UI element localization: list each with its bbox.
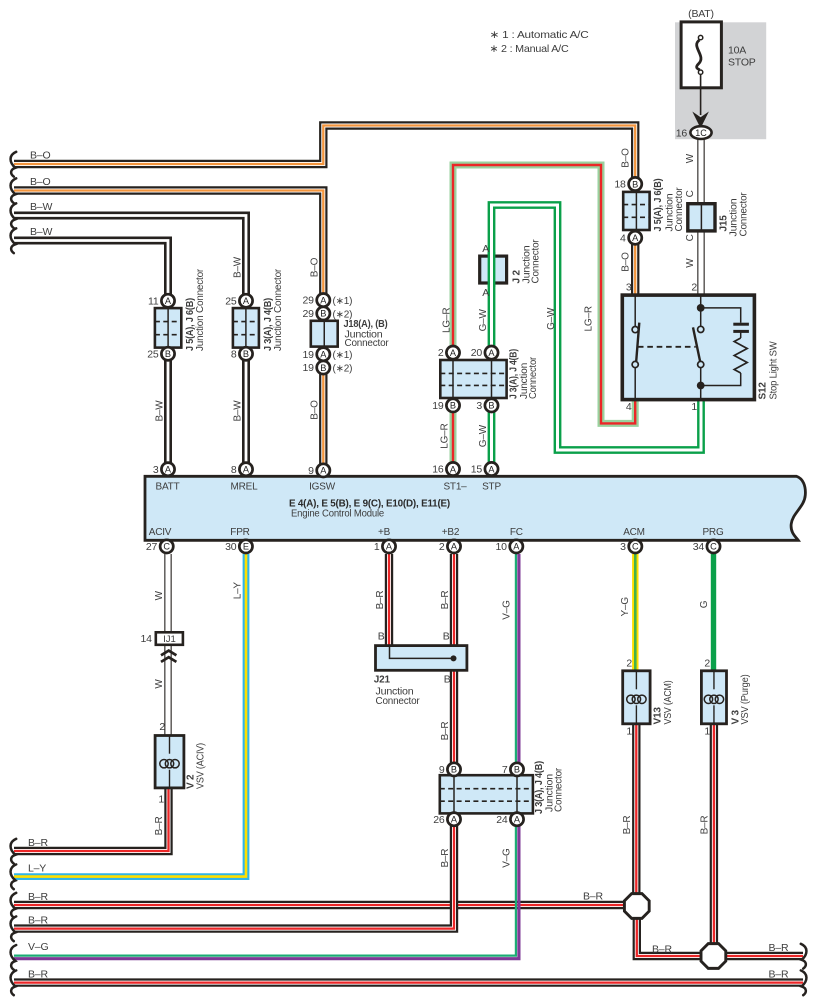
svg-text:E: E: [243, 542, 249, 552]
svg-text:FPR: FPR: [230, 527, 249, 538]
solenoid valve V3 VSV (Purge): [701, 671, 751, 725]
svg-text:3: 3: [476, 400, 482, 412]
svg-text:B: B: [320, 363, 326, 373]
svg-text:B: B: [450, 401, 456, 411]
svg-text:Junction Connector: Junction Connector: [273, 268, 284, 351]
junction connector J3(A),J4(B) (MREL column): [233, 268, 284, 351]
svg-text:+B2: +B2: [442, 527, 460, 538]
fuse 10A STOP: [681, 22, 756, 88]
svg-text:2: 2: [704, 658, 710, 670]
wire G from ECM PRG to V3: [711, 554, 716, 672]
svg-text:∗ 1 : Automatic A/C: ∗ 1 : Automatic A/C: [490, 29, 590, 41]
svg-text:V13: V13: [653, 707, 664, 725]
svg-text:L–Y: L–Y: [232, 582, 243, 600]
svg-text:4: 4: [620, 232, 626, 244]
svg-text:B–R: B–R: [28, 915, 48, 927]
svg-text:1C: 1C: [695, 128, 707, 138]
solenoid valve V2 VSV (ACIV): [155, 721, 207, 806]
connector 16 (1C): [676, 126, 712, 139]
svg-text:LG–R: LG–R: [441, 308, 452, 333]
wire V-G from ECM FC through J3(A),J4(B): [14, 554, 519, 959]
svg-text:C: C: [632, 542, 639, 552]
svg-text:8: 8: [231, 348, 237, 360]
svg-text:B: B: [320, 309, 326, 319]
svg-text:A: A: [320, 350, 327, 360]
svg-text:C: C: [163, 542, 170, 552]
svg-text:25: 25: [225, 295, 237, 307]
svg-text:B: B: [378, 631, 385, 643]
svg-text:B–R: B–R: [700, 816, 711, 835]
svg-text:Connector: Connector: [376, 696, 421, 707]
svg-text:FC: FC: [510, 527, 523, 538]
svg-text:(BAT): (BAT): [688, 8, 714, 20]
svg-text:J 5(A), J 6(B): J 5(A), J 6(B): [653, 179, 664, 232]
wire B-R bottom full width: [14, 978, 803, 986]
svg-text:A: A: [320, 466, 327, 476]
switch S12 Stop Light SW: [622, 282, 779, 414]
svg-text:(∗1): (∗1): [333, 350, 353, 361]
svg-text:A: A: [514, 815, 521, 825]
svg-text:Connector: Connector: [738, 192, 749, 237]
svg-text:ACM: ACM: [623, 527, 645, 538]
svg-text:C: C: [710, 542, 717, 552]
svg-text:W: W: [685, 258, 696, 268]
svg-text:A: A: [386, 542, 393, 552]
svg-text:A: A: [488, 348, 495, 358]
svg-text:Connector: Connector: [530, 239, 541, 284]
svg-text:29: 29: [303, 295, 315, 307]
pins: MREL column J3/J4: [225, 294, 252, 476]
svg-text:A: A: [451, 542, 458, 552]
svg-text:J 3(A), J 4(B): J 3(A), J 4(B): [534, 761, 545, 814]
svg-text:+B: +B: [378, 527, 391, 538]
junction connector J18(A),(B) (IGSW column): [311, 319, 390, 349]
svg-text:1: 1: [626, 726, 632, 738]
svg-text:8: 8: [231, 464, 237, 476]
power source (BAT) label: [688, 8, 714, 20]
svg-text:25: 25: [147, 348, 159, 360]
svg-text:B–R: B–R: [622, 816, 633, 835]
svg-text:18: 18: [614, 179, 626, 191]
svg-text:A: A: [632, 233, 639, 243]
svg-text:B: B: [514, 765, 520, 775]
svg-text:2: 2: [159, 721, 165, 733]
wire break marks right edge: [801, 944, 807, 995]
svg-text:LG–R: LG–R: [584, 306, 595, 331]
splice node (octagon) 2: [701, 944, 726, 969]
svg-text:VSV (Purge): VSV (Purge): [740, 675, 751, 725]
svg-text:B–R: B–R: [375, 591, 386, 610]
svg-text:B–R: B–R: [440, 849, 451, 868]
svg-text:B–R: B–R: [769, 968, 789, 980]
svg-text:V–G: V–G: [502, 600, 513, 620]
svg-text:1: 1: [691, 401, 697, 413]
svg-text:9: 9: [439, 764, 445, 776]
junction connector J15: [688, 192, 750, 237]
svg-text:4: 4: [626, 401, 632, 413]
pins: upper J3/J4: [432, 346, 498, 412]
wire B-R horizontal to splice node: [14, 901, 637, 909]
svg-text:C: C: [685, 234, 696, 241]
fuse block gray shading: [675, 22, 766, 139]
junction connector J5(A),J6(B) (BATT column): [155, 268, 206, 351]
svg-text:27: 27: [146, 541, 158, 553]
svg-text:11: 11: [148, 295, 159, 307]
svg-text:2: 2: [691, 282, 697, 294]
junction connector J5(A),J6(B) (right, B-O column): [623, 179, 685, 232]
svg-text:B: B: [243, 349, 249, 359]
wire B-R from V2 pin 1: [14, 788, 169, 851]
wire G-W overlay across J2: [488, 252, 496, 287]
svg-text:A: A: [450, 348, 457, 358]
wire break marks left edge: [11, 152, 17, 995]
svg-text:STP: STP: [482, 482, 501, 493]
svg-text:A: A: [243, 296, 250, 306]
svg-text:34: 34: [693, 541, 705, 553]
svg-text:(∗2): (∗2): [333, 309, 353, 320]
svg-text:B–R: B–R: [583, 891, 603, 903]
wire B-R from V13 pin 1: [632, 722, 640, 906]
svg-text:IJ1: IJ1: [163, 634, 176, 645]
svg-text:A: A: [450, 464, 457, 474]
svg-text:16: 16: [676, 127, 688, 139]
svg-text:Stop Light SW: Stop Light SW: [769, 341, 780, 400]
svg-text:19: 19: [303, 362, 315, 374]
svg-text:1: 1: [704, 726, 710, 738]
pins: lower J3/J4: [433, 763, 523, 826]
svg-text:(∗2): (∗2): [333, 364, 353, 375]
svg-text:B–O: B–O: [30, 150, 50, 162]
svg-text:B: B: [632, 179, 638, 189]
wire B-R between splice nodes: [637, 906, 714, 956]
svg-text:Junction Connector: Junction Connector: [195, 268, 206, 351]
pins: ECM top row ST1-/STP: [432, 462, 498, 475]
junction connector J21: [374, 646, 467, 707]
svg-text:2: 2: [626, 658, 632, 670]
svg-text:B–O: B–O: [621, 148, 632, 168]
wire B-R to right edge: [713, 952, 803, 960]
svg-text:B: B: [451, 765, 457, 775]
svg-text:3: 3: [620, 541, 626, 553]
svg-text:2: 2: [439, 541, 445, 553]
svg-text:G: G: [699, 600, 710, 608]
svg-text:7: 7: [502, 764, 508, 776]
svg-text:LG–R: LG–R: [439, 423, 450, 448]
svg-text:W: W: [685, 153, 696, 163]
wire Y-G from ECM ACM to V13: [632, 554, 638, 672]
pins: right J5/J6 column: [614, 177, 641, 244]
svg-text:B–W: B–W: [232, 256, 243, 278]
svg-text:B–W: B–W: [30, 226, 52, 238]
svg-text:Connector: Connector: [528, 356, 539, 399]
svg-text:L–Y: L–Y: [28, 863, 46, 875]
svg-text:B–R: B–R: [28, 837, 48, 849]
wire B-W #1 to J3(A),J4(B) and ECM MREL: [14, 216, 246, 470]
svg-text:J 3(A), J 4(B): J 3(A), J 4(B): [509, 349, 520, 399]
svg-text:A: A: [165, 465, 172, 475]
svg-text:B–R: B–R: [769, 942, 789, 954]
svg-text:B–R: B–R: [28, 968, 48, 980]
svg-text:24: 24: [496, 814, 508, 826]
svg-text:Connector: Connector: [345, 338, 390, 349]
svg-text:B–R: B–R: [154, 816, 165, 835]
svg-text:V–G: V–G: [28, 941, 48, 953]
junction connector J2: [480, 239, 542, 284]
svg-text:A: A: [513, 542, 520, 552]
svg-text:J18(A), (B): J18(A), (B): [344, 319, 388, 330]
connector IJ1 (pin 14) with shield chevrons: [141, 632, 183, 662]
svg-text:G–W: G–W: [546, 307, 557, 330]
svg-text:29: 29: [303, 308, 315, 320]
svg-text:B–R: B–R: [440, 722, 451, 741]
svg-text:Connector: Connector: [674, 187, 685, 232]
svg-text:10A: 10A: [728, 45, 746, 57]
wire B-W #2 to J5(A),J6(B) and ECM BATT: [14, 241, 168, 470]
svg-text:3: 3: [626, 282, 632, 294]
svg-text:PRG: PRG: [702, 527, 723, 538]
svg-text:G–W: G–W: [478, 424, 489, 447]
junction connector J3(A),J4(B) (lower): [440, 761, 565, 814]
svg-text:10: 10: [496, 541, 508, 553]
svg-text:9: 9: [308, 465, 314, 477]
svg-text:B: B: [443, 631, 450, 643]
svg-text:V–G: V–G: [502, 848, 513, 868]
pins: IGSW column J18: [303, 294, 353, 478]
svg-text:IGSW: IGSW: [309, 482, 336, 493]
svg-text:A: A: [451, 815, 458, 825]
svg-text:A: A: [243, 465, 250, 475]
svg-text:19: 19: [432, 400, 444, 412]
svg-text:1: 1: [158, 794, 164, 806]
svg-text:B–W: B–W: [30, 201, 52, 213]
svg-text:STOP: STOP: [728, 57, 756, 69]
svg-text:3: 3: [153, 464, 159, 476]
svg-text:A: A: [482, 287, 489, 299]
svg-text:30: 30: [225, 541, 237, 553]
svg-text:B: B: [444, 674, 451, 686]
wire G-W from S12 pin 1 via J2 to ECM STP: [492, 205, 702, 469]
svg-text:2: 2: [438, 347, 444, 359]
svg-text:(∗1): (∗1): [333, 296, 353, 307]
solenoid valve V13 VSV (ACM): [623, 671, 674, 725]
svg-text:16: 16: [432, 464, 444, 476]
arrow from fuse to connector 1C: [695, 75, 706, 126]
svg-text:Y–G: Y–G: [620, 597, 631, 617]
svg-text:VSV (ACM): VSV (ACM): [663, 681, 674, 725]
svg-text:B: B: [488, 401, 494, 411]
svg-text:15: 15: [471, 464, 483, 476]
svg-text:B–R: B–R: [440, 591, 451, 610]
svg-text:ST1–: ST1–: [443, 482, 467, 493]
wire L-Y from ECM FPR: [14, 554, 246, 877]
junction connector J3(A),J4(B) (upper middle): [440, 349, 539, 399]
splice node (octagon) 1: [624, 894, 649, 919]
svg-text:B–W: B–W: [232, 400, 243, 422]
svg-text:Engine Control Module: Engine Control Module: [291, 509, 385, 520]
svg-text:∗ 2 : Manual A/C: ∗ 2 : Manual A/C: [490, 43, 570, 55]
wire B-R from ECM +B2 through J21 and J3(A),J4(B): [14, 554, 454, 929]
svg-text:S12: S12: [758, 382, 769, 400]
svg-text:B–O: B–O: [310, 400, 321, 420]
svg-text:19: 19: [303, 349, 315, 361]
svg-text:B–R: B–R: [652, 943, 672, 955]
svg-text:A: A: [320, 295, 327, 305]
svg-text:26: 26: [433, 814, 445, 826]
ECM E4(A),E5(B),E9(C),E10(D),E11(E) Engine Control Module: [145, 476, 805, 540]
wire B-R from V3 pin 1: [710, 722, 718, 956]
svg-text:B–O: B–O: [310, 257, 321, 277]
svg-text:BATT: BATT: [155, 482, 179, 493]
svg-text:Connector: Connector: [553, 767, 564, 812]
pins: ECM bottom row: [146, 540, 720, 553]
wire W from ECM ACIV via IJ1 to V2: [164, 554, 171, 737]
svg-text:W: W: [154, 679, 165, 689]
svg-text:W: W: [154, 590, 165, 600]
svg-text:G–W: G–W: [478, 308, 489, 331]
svg-text:C: C: [685, 190, 696, 197]
wire B-O #2 to J18 and ECM IGSW: [14, 191, 323, 471]
pins: BATT column J5/J6: [147, 294, 174, 476]
wire LG-R from S12 pin 4 to ECM ST1-: [453, 165, 635, 469]
wire B-O #1 to J5(A),J6(B) and S12 pin 3: [14, 126, 635, 298]
wire B-R from ECM +B to J21: [385, 554, 393, 647]
svg-text:MREL: MREL: [231, 482, 259, 493]
svg-text:A: A: [165, 296, 172, 306]
svg-text:1: 1: [374, 541, 380, 553]
svg-text:20: 20: [471, 347, 483, 359]
svg-text:ACIV: ACIV: [149, 527, 172, 538]
svg-text:VSV (ACIV): VSV (ACIV): [196, 743, 207, 789]
svg-text:B–O: B–O: [621, 252, 632, 272]
svg-text:B–W: B–W: [154, 400, 165, 422]
svg-text:B–O: B–O: [30, 176, 50, 188]
wire W from connector 1C through J15 to S12 pin 2: [697, 133, 704, 297]
svg-text:J21: J21: [374, 675, 391, 686]
svg-text:B–R: B–R: [28, 891, 48, 903]
svg-text:14: 14: [141, 633, 153, 645]
svg-text:B: B: [165, 349, 171, 359]
note: A/C legend: [490, 29, 590, 55]
svg-text:A: A: [488, 464, 495, 474]
